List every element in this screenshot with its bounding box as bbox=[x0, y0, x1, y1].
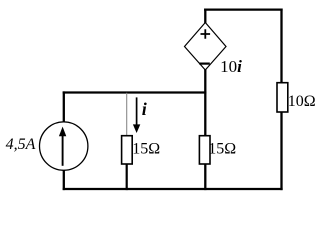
resistor R1 15ohm (left middle branch) bbox=[122, 136, 133, 164]
label 4,5A bbox=[6, 136, 36, 153]
label i (current) bbox=[142, 99, 147, 119]
wire left vertical lower (current source bottom to bottom wire) bbox=[63, 170, 65, 190]
svg-text:10i: 10i bbox=[220, 57, 242, 76]
resistor R3 10ohm (right branch) bbox=[277, 83, 288, 112]
wire stub from top wire down to dependent source apex bbox=[204, 9, 206, 24]
wire right vertical upper (top wire to 10ohm resistor) bbox=[280, 9, 282, 84]
svg-text:10Ω: 10Ω bbox=[288, 93, 316, 110]
dependent voltage source U1 10i (diamond with + and -) bbox=[185, 23, 227, 71]
current source I1 4,5A (circle with up arrow) bbox=[40, 122, 88, 170]
label 10ohm bbox=[288, 93, 316, 110]
svg-text:4,5A: 4,5A bbox=[6, 136, 36, 153]
label 15ohm R2 bbox=[208, 141, 236, 158]
wire R1 bottom stub bbox=[126, 164, 128, 191]
wire middle horizontal (node A rail) bbox=[63, 91, 207, 93]
svg-text:i: i bbox=[142, 99, 147, 119]
svg-text:15Ω: 15Ω bbox=[132, 141, 160, 158]
wire R2 bottom stub bbox=[204, 164, 206, 191]
wire dependent source bottom through node A to R2 top bbox=[204, 70, 206, 137]
wire bottom (ground return rail) bbox=[63, 188, 283, 190]
wire R1 branch thin (node A down to R1 top) bbox=[126, 93, 128, 136]
svg-text:15Ω: 15Ω bbox=[208, 141, 236, 158]
resistor R2 15ohm (middle branch) bbox=[199, 136, 210, 164]
wire right vertical lower (10ohm resistor to bottom wire) bbox=[280, 112, 282, 190]
label 15ohm R1 bbox=[132, 141, 160, 158]
wire top (node between dependent source + and 10ohm resistor) bbox=[204, 8, 283, 10]
label 10i bbox=[220, 57, 242, 76]
wire left vertical upper (node A to current source top) bbox=[63, 91, 65, 122]
current arrow i (annotation beside R1 branch) bbox=[133, 97, 140, 133]
